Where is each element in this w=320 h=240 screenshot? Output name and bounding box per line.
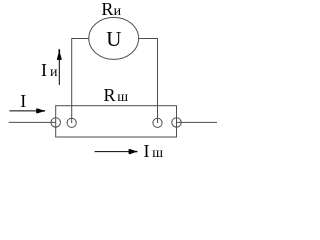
svg-text:ш: ш <box>117 90 128 105</box>
svg-text:и: и <box>114 4 122 19</box>
svg-text:I: I <box>20 91 26 111</box>
svg-text:R: R <box>101 0 113 19</box>
svg-text:U: U <box>106 27 121 51</box>
svg-text:I: I <box>144 141 150 161</box>
svg-text:R: R <box>104 85 116 105</box>
svg-text:и: и <box>50 65 58 80</box>
svg-text:ш: ш <box>152 146 163 161</box>
svg-text:I: I <box>41 60 47 80</box>
